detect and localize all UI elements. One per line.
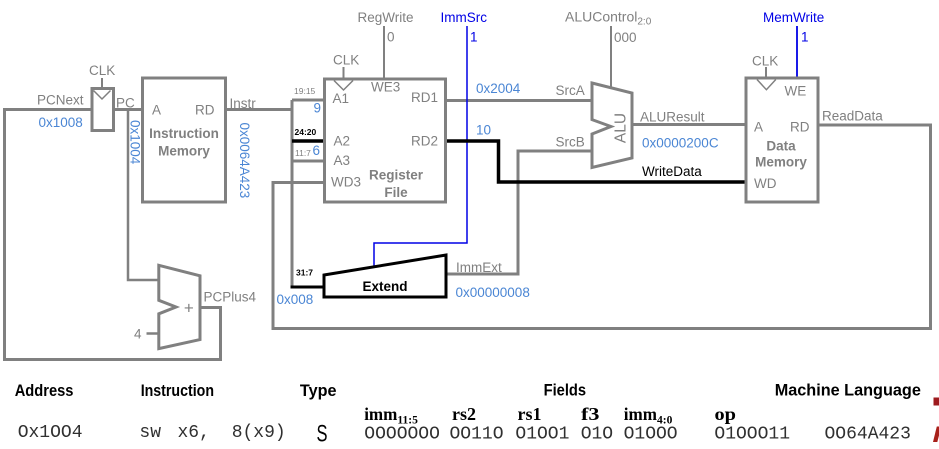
wire CLK stub to PC register [101,78,103,89]
svg-text:Register: Register [369,168,424,183]
svg-text:0: 0 [387,30,395,45]
wire ReadData return loop to WD3 [273,125,931,329]
svg-text:O1O: O1O [581,425,613,445]
svg-text:24:20: 24:20 [295,127,317,137]
svg-text:PC: PC [116,96,135,111]
svg-text:1: 1 [470,30,478,45]
PC register box [92,89,114,131]
svg-text:0x0000200C: 0x0000200C [642,136,719,151]
svg-text:op: op [715,404,737,424]
wire ALUResult to Data Memory A [632,123,746,126]
wire ImmExt to SrcB [446,151,592,274]
svg-text:PCPlus4: PCPlus4 [204,290,257,305]
svg-text:11:7: 11:7 [295,148,311,158]
svg-text:OO11O: OO11O [450,425,504,445]
svg-text:RD2: RD2 [411,134,438,149]
svg-text:0x1004: 0x1004 [128,120,143,165]
svg-text:CLK: CLK [752,54,778,69]
svg-text:x6,: x6, [178,423,210,443]
wire PC to Instruction Memory [114,108,143,111]
svg-text:A: A [754,120,763,135]
wire RD2 WriteData to Data Memory WD (black) [446,141,747,182]
svg-text:SrcA: SrcA [556,83,585,98]
svg-text:0x008: 0x008 [277,292,314,307]
svg-text:Instr: Instr [230,96,257,111]
svg-text:f3: f3 [581,404,600,424]
instruction memory box U_IM [143,78,226,202]
svg-text:S: S [317,421,328,448]
svg-text:Fields: Fields [544,382,587,400]
wire ALUControl control [610,26,612,88]
svg-text:O1OOO: O1OOO [624,425,678,445]
svg-text:MemWrite: MemWrite [763,10,824,25]
svg-text:WD3: WD3 [331,175,361,190]
svg-text:0x00000008: 0x00000008 [456,285,530,300]
svg-text:ImmExt: ImmExt [456,260,502,275]
svg-text:Address: Address [15,382,74,400]
PCPlus4 adder [159,265,200,348]
svg-text:A: A [152,103,161,118]
red annotation glyph (cut off) [933,427,939,443]
svg-text:RD: RD [790,120,810,135]
svg-text:OO64A423: OO64A423 [825,425,911,445]
wire bus tap 31:7 to Extend (black) [291,286,326,289]
svg-text:Type: Type [300,382,337,400]
svg-text:Data: Data [766,139,796,154]
red annotation block (cut off) [934,398,939,406]
svg-text:+: + [184,299,194,318]
svg-text:A1: A1 [333,91,350,106]
svg-text:CLK: CLK [89,63,115,78]
svg-text:WE3: WE3 [371,80,400,95]
wire MemWrite control (blue) [796,26,798,78]
svg-text:OOOOOOO: OOOOOOO [364,425,440,445]
wire RegWrite control [383,26,385,79]
wire bus tap 19:15 to A1 [292,99,325,102]
svg-text:RD: RD [195,103,215,118]
wire instruction bus vertical [291,100,294,287]
svg-text:PCNext: PCNext [37,93,84,108]
wire RD1 to SrcA [446,99,593,102]
wire PC feedback down to PCPlus4 adder [128,110,159,281]
svg-text:9: 9 [314,101,322,116]
svg-text:8(x9): 8(x9) [232,423,286,443]
svg-text:O1OOO11: O1OOO11 [714,425,790,445]
svg-text:Ox1OO4: Ox1OO4 [18,423,83,443]
svg-text:RD1: RD1 [411,90,438,105]
wire PCNext loop (PCPlus4 feedback to PC) [5,110,221,360]
svg-text:SrcB: SrcB [556,135,585,150]
svg-text:rs1: rs1 [518,404,542,424]
svg-text:O1OO1: O1OO1 [515,425,569,445]
data memory box U_DM [746,67,818,202]
svg-text:File: File [384,185,408,200]
svg-text:Extend: Extend [362,279,407,294]
svg-text:Machine Language: Machine Language [775,382,921,400]
svg-text:ImmSrc: ImmSrc [441,10,488,25]
register file box U_RF [325,67,446,202]
svg-text:1: 1 [801,30,809,45]
wire constant 4 stub into adder [147,332,160,335]
svg-text:ALU: ALU [613,113,630,143]
svg-text:0x1008: 0x1008 [39,115,83,130]
ALU U_ALU [592,83,632,168]
extend unit (black) [324,255,446,297]
svg-text:0x2004: 0x2004 [476,81,521,96]
wire bus tap 11:7 to A3 [292,160,325,163]
svg-text:6: 6 [313,143,321,158]
svg-text:WriteData: WriteData [642,164,702,179]
svg-text:ALUResult: ALUResult [640,110,705,125]
svg-text:A2: A2 [334,134,351,149]
svg-text:rs2: rs2 [452,404,476,424]
wire bus tap 24:20 to A2 (black) [292,139,325,143]
wire ImmSrc control (blue) [374,26,467,267]
svg-text:0x0064A423: 0x0064A423 [237,123,252,199]
svg-text:Memory: Memory [755,155,807,170]
svg-text:CLK: CLK [333,53,359,68]
svg-text:WD: WD [754,176,777,191]
svg-text:000: 000 [614,30,637,45]
svg-text:Instruction: Instruction [149,126,219,141]
svg-text:RegWrite: RegWrite [358,10,414,25]
svg-text:31:7: 31:7 [296,268,313,278]
svg-text:10: 10 [476,123,491,138]
svg-text:Instruction: Instruction [141,382,214,400]
svg-text:A3: A3 [334,153,351,168]
svg-text:ReadData: ReadData [822,109,883,124]
svg-text:19:15: 19:15 [294,86,316,96]
svg-text:Memory: Memory [158,144,210,159]
wire Instr from IM RD to bus [226,108,294,111]
svg-text:4: 4 [134,327,142,342]
svg-text:WE: WE [785,84,807,99]
svg-text:sw: sw [139,423,161,443]
